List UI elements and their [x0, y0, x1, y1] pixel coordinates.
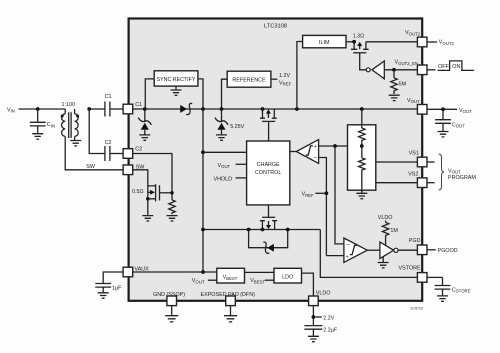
capacitor 2.2uF — [304, 326, 337, 336]
wire VS2 — [376, 182, 418, 184]
svg-text:VAUX: VAUX — [135, 267, 150, 273]
svg-text:C1: C1 — [135, 102, 142, 108]
svg-text:PGOOD: PGOOD — [438, 248, 458, 254]
svg-text:5.25V: 5.25V — [230, 124, 244, 130]
pin VOUT2_EN — [417, 65, 427, 75]
node VHOLD label (charge control input) — [214, 176, 247, 182]
ideal diode D2 (in rail) — [180, 103, 192, 114]
vbest box — [217, 268, 245, 283]
node x203/charge-control — [201, 150, 205, 154]
pin VOUT2 — [417, 37, 427, 47]
diode D1 (clamp at C1 node) — [138, 109, 151, 140]
node rail/divider — [360, 107, 364, 111]
capacitor C2 — [89, 109, 123, 161]
wire to charge control — [203, 151, 247, 153]
node PGOOD external — [427, 248, 458, 254]
pin VS1 — [417, 157, 427, 167]
transistor Q1 (P-ch VOUT switch on rail) — [260, 107, 277, 141]
wire VS1 stub — [427, 161, 435, 163]
svg-text:CIN: CIN — [47, 122, 55, 128]
ground (secondary) — [70, 136, 81, 146]
svg-text:VREF: VREF — [302, 192, 315, 198]
node VOUT label (vbest input) — [192, 278, 217, 284]
pin labels right edge — [395, 30, 421, 271]
pin VS2 — [417, 178, 427, 188]
note part marking — [410, 307, 424, 311]
transistor Q4 (0.5 ohm N-ch SW switch) — [132, 170, 172, 216]
wire comparator minus to VREF — [319, 158, 327, 256]
node VOUT label (charge control input) — [218, 163, 247, 169]
resistor 1M — [382, 221, 398, 245]
capacitor C1 — [89, 94, 123, 116]
ground (gate bleed) — [167, 216, 178, 221]
ground (CSTORE) — [437, 296, 448, 301]
charge control box — [247, 141, 290, 205]
svg-text:SW: SW — [136, 164, 146, 170]
transformer T1 1:100 — [61, 102, 79, 138]
svg-text:CONTROL: CONTROL — [255, 170, 281, 176]
node VLDO pin label — [316, 291, 331, 297]
transistor Q3 (N-ch below charge control) — [260, 205, 277, 231]
pin C1 — [123, 102, 142, 114]
op-amp U3 (charge comparator) — [290, 140, 319, 164]
pin VOUT — [417, 105, 427, 115]
svg-text:3108 BD: 3108 BD — [410, 307, 424, 311]
capacitor 1uF (VAUX) — [95, 272, 123, 292]
node VREF label — [302, 191, 329, 197]
node VLDO label (1M pullup) — [378, 215, 393, 221]
svg-text:C1: C1 — [105, 94, 112, 100]
svg-text:VHOLD: VHOLD — [214, 176, 233, 182]
node OFF/ON waveform — [427, 61, 474, 71]
svg-text:+: + — [314, 144, 317, 150]
svg-text:VOUT: VOUT — [448, 168, 461, 174]
svg-text:1:100: 1:100 — [62, 102, 76, 108]
IC body LTC3108 — [129, 19, 423, 301]
node SW external label — [86, 164, 96, 170]
svg-text:LDO: LDO — [282, 274, 293, 280]
pin VLDO — [309, 296, 319, 306]
node VOUT PROGRAM brace — [439, 154, 477, 190]
ground (2.2uF) — [308, 336, 319, 341]
svg-text:1μF: 1μF — [112, 285, 122, 291]
svg-text:+: + — [346, 255, 349, 261]
wire VS1 — [376, 161, 418, 163]
svg-text:0.5Ω: 0.5Ω — [132, 189, 144, 195]
sync rectify box — [145, 71, 203, 109]
node VBEST net label — [245, 272, 275, 284]
svg-text:SYNC RECTIFY: SYNC RECTIFY — [157, 77, 196, 83]
svg-text:VOUT2: VOUT2 — [439, 40, 455, 46]
ground (COUT) — [438, 132, 449, 137]
node VOUT2 external — [427, 40, 454, 46]
ilim box — [297, 35, 355, 109]
svg-text:VOUT: VOUT — [459, 108, 472, 114]
node 2.2V (VLDO) — [312, 306, 335, 325]
svg-text:2.2V: 2.2V — [323, 316, 334, 322]
capacitor COUT — [435, 109, 465, 131]
svg-text:VLDO: VLDO — [378, 215, 393, 221]
pin EXPOSED PAD (DFN) — [226, 296, 236, 306]
op-amp U4 (PGOOD comparator) — [344, 238, 367, 262]
ground (inverter U5) — [378, 257, 389, 268]
svg-text:COUT: COUT — [452, 122, 465, 128]
svg-text:VIN: VIN — [7, 107, 15, 113]
svg-text:5M: 5M — [399, 82, 407, 88]
svg-text:VOUT: VOUT — [218, 163, 231, 169]
wire LDO to VLDO pin — [302, 273, 314, 296]
pin C2 — [123, 147, 142, 159]
svg-text:ILIM: ILIM — [319, 40, 330, 46]
node C2 tap junction — [87, 107, 91, 111]
svg-text:LTC3108: LTC3108 — [264, 23, 287, 29]
inverter U2 (VOUT2_EN) — [360, 55, 418, 79]
ground (divider) — [356, 190, 367, 199]
node GND (SSOP) label — [153, 292, 185, 298]
svg-text:VOUT2: VOUT2 — [405, 30, 421, 36]
svg-text:SW: SW — [86, 164, 96, 170]
wire VAUX vertical x203 — [202, 109, 204, 272]
ground (Q4 source) — [142, 216, 153, 221]
svg-text:OFF: OFF — [438, 64, 449, 70]
svg-text:REFERENCE: REFERENCE — [232, 78, 266, 84]
pin VAUX — [123, 267, 133, 277]
node C1/rail junction — [143, 107, 147, 111]
ground (1uF) — [98, 293, 109, 298]
pin PGD — [417, 245, 427, 255]
svg-text:VOUT2_EN: VOUT2_EN — [395, 60, 418, 66]
pin GND (SSOP) — [167, 296, 177, 306]
node rail/ilim — [295, 107, 299, 111]
node VOUT external — [427, 107, 472, 114]
svg-text:CHARGE: CHARGE — [257, 162, 280, 168]
wire primary to SW — [65, 136, 123, 169]
reference box — [222, 71, 292, 109]
node rail/zener — [220, 107, 224, 111]
resistor divider box — [348, 109, 376, 192]
svg-text:VS1: VS1 — [409, 151, 419, 157]
ground (EXPOSED PAD pin) — [224, 306, 237, 322]
wire divider tap to comparator — [319, 144, 362, 148]
svg-text:2.2μF: 2.2μF — [323, 327, 338, 333]
wire VREF to PGD comparator — [326, 255, 344, 257]
node VAUX pin label — [135, 267, 150, 273]
node EXPOSED PAD (DFN) label — [201, 292, 256, 298]
svg-text:1M: 1M — [390, 228, 398, 234]
ground (sync rectify) — [171, 86, 182, 95]
capacitor CSTORE — [435, 277, 471, 295]
capacitor CIN — [30, 109, 55, 133]
inverter U5 (PGD driver) — [367, 242, 417, 259]
zener 5.25V — [215, 109, 245, 140]
LDO box — [274, 268, 302, 283]
svg-text:VOUT: VOUT — [407, 98, 420, 104]
wire VAUX bottom rail — [133, 270, 217, 274]
svg-text:C2: C2 — [135, 147, 142, 153]
pin VSTORE — [417, 273, 427, 283]
svg-text:VBEST: VBEST — [223, 275, 238, 281]
svg-text:1.2V: 1.2V — [279, 73, 290, 79]
diode D3 (body diode loop with switch) — [247, 228, 290, 254]
svg-text:VOUT: VOUT — [192, 278, 205, 284]
node VSTORE external wire — [427, 276, 443, 278]
svg-text:VBEST: VBEST — [250, 278, 265, 284]
wire Q3 row — [201, 228, 320, 232]
svg-text:VSTORE: VSTORE — [399, 265, 421, 271]
svg-text:VS2: VS2 — [408, 172, 418, 178]
svg-text:PGD: PGD — [409, 238, 421, 244]
wire tap to PGD comparator — [335, 146, 344, 244]
transistor Q2 (1.3 ohm P-ch VOUT2 switch) — [351, 34, 418, 55]
resistor 5M — [389, 70, 407, 101]
wire VSTORE internal — [320, 230, 417, 278]
resistor (gate bleed) — [169, 200, 175, 214]
pin SW — [123, 164, 145, 174]
wire VAUX top rail — [133, 108, 418, 110]
svg-text:CSTORE: CSTORE — [452, 287, 471, 293]
svg-text:ON: ON — [452, 64, 460, 70]
svg-text:PROGRAM: PROGRAM — [448, 175, 476, 181]
node VIN — [7, 107, 65, 113]
node rail/x203 — [201, 107, 205, 111]
svg-text:1.3Ω: 1.3Ω — [353, 34, 365, 40]
ground (GND SSOP pin) — [165, 306, 178, 322]
svg-text:C2: C2 — [105, 140, 112, 146]
ground (CIN) — [32, 134, 43, 139]
wire C2 gate feed — [133, 154, 174, 200]
svg-text:VREF: VREF — [279, 80, 292, 86]
wire VS2 stub — [427, 182, 435, 184]
